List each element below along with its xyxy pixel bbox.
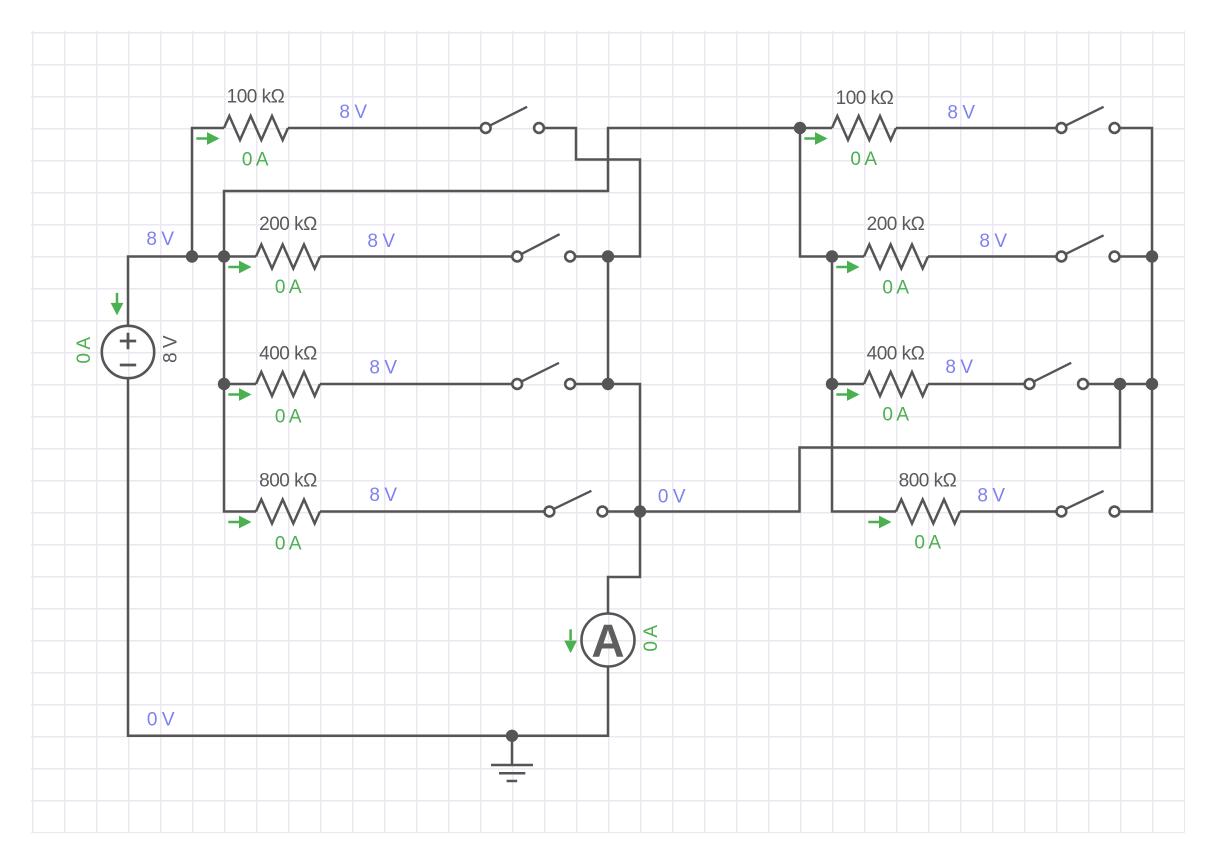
wire source top to node [128,257,224,326]
svg-text:0 A: 0 A [275,277,302,298]
wire R2 to SW2 [320,255,512,258]
switch SW7 [1025,363,1088,389]
current arrow source [111,293,124,316]
svg-text:8 V: 8 V [979,231,1007,252]
junction dot [826,378,838,390]
current arrow ammeter [564,629,577,653]
current arrow R1 [196,132,219,145]
ammeter AM1 [582,614,635,667]
junction dot [1146,250,1158,262]
junction dot [186,250,198,262]
svg-text:200 kΩ: 200 kΩ [259,214,317,235]
wire to R4 row [224,384,256,512]
switch SW1 [481,107,544,133]
wire SW5 to right bus [1120,128,1152,257]
svg-text:8 V: 8 V [367,231,395,252]
switch SW5 [1057,107,1120,133]
resistor R1 100k body [224,116,288,140]
wire ammeter to ground to source [128,378,608,736]
switch SW4 [545,491,608,517]
wire node column x224 [223,257,226,385]
svg-text:0 V: 0 V [658,487,686,508]
resistor R4 800k body [256,500,320,524]
svg-text:800 kΩ: 800 kΩ [899,471,957,492]
svg-text:0 A: 0 A [850,149,877,170]
svg-text:0 A: 0 A [641,625,662,652]
current arrow R8 [868,516,891,529]
svg-text:8 V: 8 V [369,485,397,506]
wire R7 row left lead [832,383,864,386]
wire SW1 to node A [545,128,640,257]
svg-text:200 kΩ: 200 kΩ [867,214,925,235]
wire R4 to SW4 [320,510,544,513]
switch SW2 [512,234,575,261]
svg-text:8 V: 8 V [161,335,182,363]
svg-text:0 V: 0 V [147,710,175,731]
wire R3 to SW3 [320,383,512,386]
voltage source V1 [102,326,154,378]
wire SW2 to node A [576,255,608,258]
resistor R5 100k body [832,116,896,140]
resistor R2 200k body [256,245,320,269]
svg-text:400 kΩ: 400 kΩ [867,344,925,365]
junction dot node A [602,250,614,262]
switch SW8 [1057,491,1120,517]
svg-text:0 A: 0 A [882,404,909,425]
junction dot [218,250,230,262]
svg-text:100 kΩ: 100 kΩ [836,88,894,109]
svg-text:0 A: 0 A [242,150,269,171]
resistor R7 400k body [864,372,928,396]
wire R2 row left lead [224,255,256,258]
junction dot [826,250,838,262]
current arrow R2 [228,261,251,274]
wire node B to node C [608,384,640,512]
ground symbol [491,736,533,781]
current arrow R5 [804,132,827,145]
wire node to right half top [224,128,800,257]
current arrow R7 [836,388,859,401]
svg-text:0 A: 0 A [275,407,302,428]
switch SW3 [512,363,575,389]
wire right bus upper [1151,257,1154,385]
svg-text:400 kΩ: 400 kΩ [259,344,317,365]
wire R6 row left lead [832,255,864,258]
svg-text:8 V: 8 V [146,229,174,250]
wire right feed column x800 [800,128,832,257]
wire R1 to SW1 [288,127,480,130]
junction dot node C [634,505,646,517]
junction dot node B [602,378,614,390]
svg-text:100 kΩ: 100 kΩ [227,87,285,108]
wire R5 to SW5 [896,127,1056,130]
wire SW4 to node C [608,510,640,513]
svg-text:0 A: 0 A [882,278,909,299]
svg-text:8 V: 8 V [369,358,397,379]
svg-text:8 V: 8 V [947,102,975,123]
resistor R6 200k body [864,245,928,269]
wire node C to ammeter [608,512,640,614]
wire R3 row left lead [224,383,256,386]
junction dot [1114,378,1126,390]
current arrow R4 [228,516,251,529]
current arrow R3 [228,388,251,401]
wire R5 row left lead [800,127,832,130]
switch SW6 [1057,235,1120,261]
wire node C to right return [640,384,1120,512]
svg-text:0 A: 0 A [914,532,941,553]
resistor R8 800k body [896,500,960,524]
wire R6 to SW6 [928,255,1056,258]
junction dot [218,378,230,390]
wire SW8 to right bus [1120,384,1152,512]
wire R7 to SW7 [928,383,1024,386]
wire SW6 to right bus [1120,255,1152,258]
svg-text:800 kΩ: 800 kΩ [259,471,317,492]
wire R8 to SW8 [960,510,1056,513]
current arrow R6 [836,261,859,274]
svg-text:8 V: 8 V [339,102,367,123]
svg-text:8 V: 8 V [945,357,973,378]
junction dot [1146,378,1158,390]
svg-text:8 V: 8 V [977,486,1005,507]
wire SW3 to node B [576,383,608,386]
junction dot ground [506,730,518,742]
wire node A to node B [607,257,610,385]
svg-text:0 A: 0 A [74,337,95,364]
wire right feed column x832 [831,257,834,385]
wire node to R1 [192,128,224,257]
svg-text:A: A [591,615,624,667]
resistor R3 400k body [256,372,320,396]
wire SW7 to right bus [1089,383,1152,386]
junction dot [794,122,806,134]
wire to R8 row [832,384,896,512]
svg-text:0 A: 0 A [275,534,302,555]
